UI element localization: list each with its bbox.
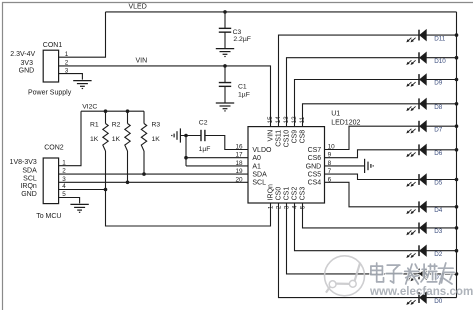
junction VLED bus D1 [455, 272, 459, 276]
wire CS11 to D11 [279, 35, 420, 127]
svg-text:17: 17 [235, 152, 243, 159]
junction VLED bus D10 [455, 56, 459, 60]
watermark chinese text dianzi fashaoyou [371, 263, 454, 284]
LED D7 [406, 121, 426, 134]
U1 left pin names VLDO A0 A1 SDA SCL [252, 147, 272, 187]
svg-text:CS6: CS6 [308, 155, 322, 162]
svg-text:IRQn: IRQn [20, 183, 36, 190]
svg-text:LED1202: LED1202 [331, 119, 360, 126]
wire D6 anode to VLED bus [426, 149, 456, 151]
U1 right pin numbers 10-6 [328, 144, 336, 184]
svg-text:IRQn: IRQn [268, 184, 275, 200]
junction VIN C1 [223, 64, 227, 68]
junction A0 [184, 156, 188, 160]
U1 bottom pin names IRQn CS0 CS1 CS2 CS3 [268, 184, 307, 200]
svg-text:CS11: CS11 [276, 130, 283, 147]
wire D4 anode to VLED bus [426, 206, 456, 208]
LED D6 [406, 144, 426, 157]
connector CON2 [43, 158, 58, 204]
svg-text:CS1: CS1 [284, 187, 291, 201]
svg-text:C1: C1 [238, 83, 247, 90]
ground below C1 [216, 103, 234, 111]
svg-text:1K: 1K [112, 136, 121, 143]
wire ground to C2 [180, 135, 201, 137]
svg-text:2.3V-4V: 2.3V-4V [10, 51, 35, 58]
wire CS1 to D1 [287, 203, 420, 274]
wire D2 anode to VLED bus [426, 250, 456, 252]
LED D5 [406, 174, 426, 187]
svg-text:VIN: VIN [268, 130, 275, 142]
svg-text:VLDO: VLDO [252, 147, 272, 154]
wire D7 anode to VLED bus [426, 125, 456, 127]
svg-text:D8: D8 [434, 104, 443, 111]
wire VIN CON1 pin2 to U1 pin15 [59, 66, 271, 127]
junction VLED bus D8 [455, 102, 459, 106]
LED D4 [406, 201, 426, 214]
wire D10 anode to VLED bus [426, 57, 456, 59]
svg-text:CS9: CS9 [292, 130, 299, 144]
svg-text:A1: A1 [252, 163, 261, 170]
svg-text:U1: U1 [331, 110, 340, 117]
svg-text:19: 19 [235, 168, 243, 175]
junction VLED bus D6 [455, 148, 459, 152]
ground below C3 [216, 49, 234, 57]
junction VLED bus D9 [455, 78, 459, 82]
svg-text:SCL: SCL [252, 180, 266, 187]
svg-text:CS4: CS4 [308, 180, 322, 187]
wire SCL row CON2 pin3 to U1 pin20 [59, 181, 248, 183]
wire CS4 to D4 [325, 182, 420, 207]
wire D0 anode to VLED bus [426, 297, 456, 299]
wire A0 A1 tie [185, 136, 187, 166]
junction VLED bus D5 [455, 178, 459, 182]
svg-text:1K: 1K [152, 136, 161, 143]
wire CS6 to D6 [325, 150, 420, 158]
capacitor C3 [224, 12, 226, 28]
junction VI2C R2 [126, 109, 130, 113]
U1 right pin names CS7 CS6 GND CS5 CS4 [306, 147, 322, 187]
junction VLED bus D4 [455, 205, 459, 209]
wire CS2 to D2 [295, 203, 420, 251]
wire CS7 to D7 [325, 126, 420, 149]
svg-text:CON1: CON1 [43, 42, 63, 49]
wire CS9 to D9 [295, 80, 420, 127]
svg-text:15: 15 [267, 116, 274, 124]
svg-text:1: 1 [267, 205, 274, 209]
junction VLED bus D3 [455, 226, 459, 230]
wire CON2 pin1 to VI2C [59, 111, 81, 166]
capacitor C2 [201, 130, 205, 141]
ground at CON1 pin3 [73, 81, 91, 89]
CON1 pin labels 2.3V-4V 3V3 GND [10, 51, 35, 74]
wire CS8 to D8 [303, 104, 420, 127]
capacitor C1 [224, 66, 226, 83]
svg-text:CS0: CS0 [276, 187, 283, 201]
svg-text:SDA: SDA [22, 168, 37, 175]
op-amp U1 LED1202 IC body [248, 127, 325, 203]
svg-text:VI2C: VI2C [82, 104, 97, 111]
junction R2 SCL [126, 181, 130, 185]
svg-text:CS2: CS2 [292, 187, 299, 201]
wire CS5 to D5 [325, 174, 420, 179]
wire D3 anode to VLED bus [426, 227, 456, 229]
svg-text:GND: GND [306, 163, 322, 170]
svg-text:SCL: SCL [23, 176, 37, 183]
wire IRQn CON2 pin4 to U1 pin1 [59, 190, 271, 227]
wire CS0 to D0 [279, 203, 420, 298]
wire SDA row CON2 pin2 to U1 pin19 [59, 173, 248, 175]
LED D3 [406, 222, 426, 235]
svg-text:D11: D11 [434, 35, 446, 42]
svg-text:1µF: 1µF [238, 92, 250, 99]
svg-text:D4: D4 [434, 207, 443, 214]
junction VLED bus D11 [455, 33, 459, 37]
svg-text:CS10: CS10 [284, 130, 291, 148]
CON2 pin numbers 1-5 [62, 159, 66, 198]
wire A1 to U1 pin18 [186, 165, 248, 167]
svg-text:D7: D7 [434, 126, 443, 133]
wire VI2C rail [81, 110, 144, 112]
svg-text:A0: A0 [252, 155, 261, 162]
svg-text:1V8-3V3: 1V8-3V3 [10, 159, 37, 166]
svg-text:CS3: CS3 [300, 187, 307, 201]
wire A0 to U1 pin17 [186, 157, 248, 159]
connector CON1 [43, 50, 58, 82]
svg-text:C2: C2 [199, 120, 208, 127]
watermark elecfans logo [325, 256, 365, 296]
U1 top pin numbers 15-11 [267, 116, 306, 124]
wire D5 anode to VLED bus [426, 179, 456, 181]
junction C2 A0A1 [184, 134, 188, 138]
junction VI2C R1 [104, 109, 108, 113]
ground at U1 GND [365, 159, 374, 173]
svg-text:1µF: 1µF [199, 146, 211, 153]
svg-text:2.2µF: 2.2µF [233, 36, 251, 43]
ground at CON2 pin5 [70, 204, 88, 212]
svg-text:CON2: CON2 [44, 145, 64, 152]
svg-text:16: 16 [235, 144, 243, 151]
U1 top pin names VIN CS11 CS10 CS9 CS8 [268, 130, 307, 148]
LED D8 [406, 98, 426, 111]
svg-text:3V3: 3V3 [21, 60, 34, 67]
junction R3 SDA [142, 172, 146, 176]
svg-text:R1: R1 [90, 121, 99, 128]
wire D11 anode to VLED bus [426, 34, 456, 36]
wire CON1 pin1 to VLED [59, 12, 106, 57]
LED D9 [406, 74, 426, 87]
wire D9 anode to VLED bus [426, 79, 456, 81]
wire D8 anode to VLED bus [426, 103, 456, 105]
wire D1 anode to VLED bus [426, 273, 456, 275]
svg-text:CS5: CS5 [308, 172, 322, 179]
svg-text:1K: 1K [90, 136, 99, 143]
wire C2 to U1 VLDO pin16 [205, 136, 248, 150]
LED D11 [406, 30, 426, 43]
svg-text:D10: D10 [434, 58, 446, 65]
wire VLED right bus [456, 12, 458, 298]
resistor R1 [105, 111, 107, 123]
svg-text:R2: R2 [112, 121, 121, 128]
svg-text:D9: D9 [434, 80, 443, 87]
resistor R2 [127, 111, 129, 123]
U1 bottom pin numbers 1-5 [267, 205, 306, 209]
svg-text:18: 18 [235, 160, 243, 167]
svg-text:D2: D2 [434, 251, 443, 258]
wire CS10 to D10 [287, 58, 420, 127]
svg-text:VLED: VLED [129, 4, 147, 11]
svg-text:GND: GND [21, 191, 37, 198]
svg-text:20: 20 [235, 176, 243, 183]
svg-text:D3: D3 [434, 228, 443, 235]
CON1 pin numbers 1 2 3 [65, 51, 69, 74]
U1 left pin numbers 16-20 [235, 144, 243, 184]
svg-text:CS7: CS7 [308, 147, 322, 154]
svg-text:D5: D5 [434, 180, 443, 187]
svg-text:CS8: CS8 [300, 130, 307, 144]
svg-text:R3: R3 [152, 121, 161, 128]
wire VLED rail top [106, 11, 457, 13]
LED D2 [406, 245, 426, 258]
ground at C2 [172, 128, 181, 142]
svg-text:VIN: VIN [136, 58, 148, 65]
svg-text:C3: C3 [233, 29, 242, 36]
wire CON2 pin5 to ground [59, 198, 80, 204]
svg-text:To MCU: To MCU [36, 213, 61, 220]
wire CON1 pin3 to ground [59, 74, 83, 80]
wire U1 GND pin8 [325, 165, 365, 167]
LED D1 [406, 268, 426, 281]
svg-text:D6: D6 [434, 150, 443, 157]
svg-text:www.elecfans.com: www.elecfans.com [369, 285, 473, 298]
svg-text:SDA: SDA [252, 172, 267, 179]
LED D10 [406, 52, 426, 65]
svg-text:Power Supply: Power Supply [28, 90, 72, 97]
wire CS3 to D3 [303, 203, 420, 228]
junction VLED C3 [223, 10, 227, 14]
LED D0 [406, 292, 426, 305]
CON2 pin labels 1V8-3V3 SDA SCL IRQn GND [10, 159, 38, 198]
svg-text:D0: D0 [434, 298, 443, 305]
junction VLED bus D2 [455, 249, 459, 253]
junction VLED bus D7 [455, 124, 459, 128]
svg-text:GND: GND [19, 68, 35, 75]
resistor R3 [143, 111, 145, 123]
junction IRQn R1 [104, 188, 108, 192]
